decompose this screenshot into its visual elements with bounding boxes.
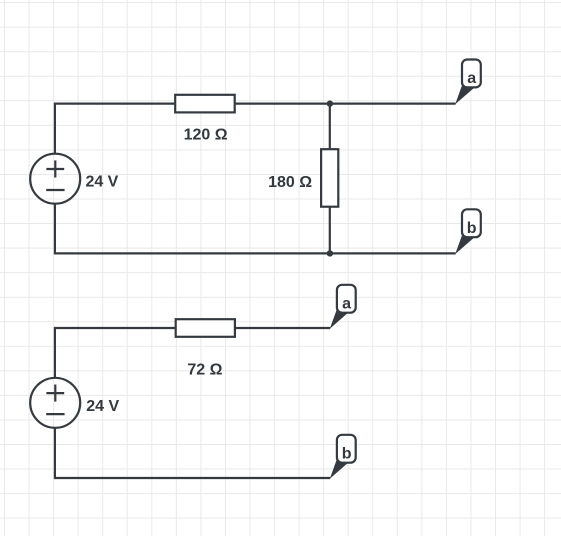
wire top circuit: bottom wire left segment [55,252,330,254]
svg-text:a: a [342,296,351,313]
junction node (bottom wire / 180 ohm branch) [327,250,333,256]
wire bottom circuit: top wire right segment [234,327,330,329]
wire bottom circuit: left vertical lower [54,428,56,480]
resistor R3 72 ohm (body) [176,319,235,337]
voltage source V2 24 V [30,378,80,428]
wire top circuit: top wire right segment [330,102,456,104]
wire top circuit: branch lower (180 ohm to node) [329,207,331,254]
svg-text:180 Ω: 180 Ω [268,174,312,191]
wire bottom circuit: left vertical upper [54,327,56,378]
wire bottom circuit: bottom wire [55,477,330,479]
voltage source V1 24 V [30,154,80,204]
terminal b (bottom circuit) [330,435,356,479]
wire top circuit: bottom wire right segment [330,252,456,254]
resistor R2 180 ohm (body) [321,149,338,207]
wire top circuit: top wire left segment [55,102,176,104]
wire top circuit: left vertical lower [54,204,56,255]
svg-text:b: b [342,446,352,463]
wire bottom circuit: top wire left segment [55,327,176,329]
resistor R1 120 ohm (body) [175,95,235,113]
wire top circuit: left vertical upper [54,103,56,154]
terminal a (bottom circuit) [330,285,356,329]
svg-text:120 Ω: 120 Ω [184,126,228,143]
junction node (top wire / 180 ohm branch) [327,100,333,106]
svg-text:24 V: 24 V [85,173,118,190]
terminal a (top circuit) [455,60,481,105]
svg-text:24 V: 24 V [86,398,119,415]
wire top circuit: branch upper (node to 180 ohm) [329,104,331,150]
svg-text:72 Ω: 72 Ω [187,361,222,378]
wire top circuit: top wire middle segment [234,102,330,104]
terminal b (top circuit) [455,209,481,254]
svg-text:a: a [467,70,476,87]
svg-text:b: b [467,220,477,237]
